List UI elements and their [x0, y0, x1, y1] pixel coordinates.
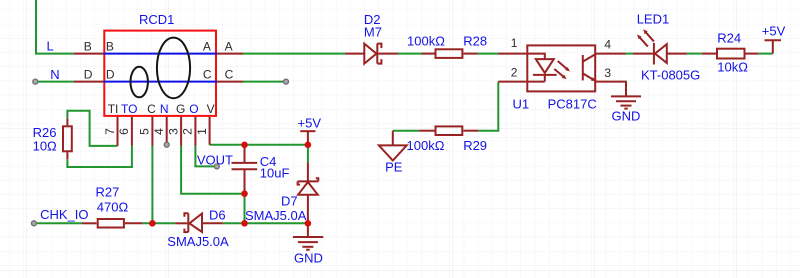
svg-text:L: L [47, 39, 54, 54]
svg-text:KT-0805G: KT-0805G [641, 67, 700, 82]
svg-text:7: 7 [103, 128, 117, 135]
svg-text:GND: GND [294, 251, 323, 266]
svg-text:2: 2 [511, 65, 518, 79]
svg-text:C: C [225, 68, 234, 82]
svg-text:SMAJ5.0A: SMAJ5.0A [245, 208, 307, 223]
svg-text:10kΩ: 10kΩ [717, 59, 748, 74]
svg-text:PE: PE [385, 159, 403, 174]
svg-text:D: D [84, 68, 93, 82]
svg-text:6: 6 [117, 128, 131, 135]
svg-text:4: 4 [604, 38, 611, 52]
svg-text:B: B [106, 40, 114, 54]
svg-text:U1: U1 [513, 96, 530, 111]
svg-text:R28: R28 [463, 34, 487, 49]
svg-text:C: C [203, 68, 212, 82]
svg-text:D7: D7 [281, 194, 298, 209]
svg-text:GND: GND [612, 108, 641, 123]
svg-text:VOUT: VOUT [197, 152, 233, 167]
svg-text:5: 5 [138, 128, 152, 135]
svg-text:LED1: LED1 [637, 11, 670, 26]
svg-text:PC817C: PC817C [548, 96, 597, 111]
svg-text:A: A [203, 40, 211, 54]
svg-text:2: 2 [181, 128, 195, 135]
svg-text:+5V: +5V [762, 24, 786, 39]
svg-text:3: 3 [166, 128, 180, 135]
svg-text:B: B [84, 40, 92, 54]
svg-text:D: D [106, 68, 115, 82]
svg-text:N: N [50, 67, 59, 82]
svg-text:R24: R24 [717, 31, 741, 46]
svg-text:10uF: 10uF [260, 166, 290, 181]
svg-text:TO: TO [121, 102, 137, 116]
svg-text:G: G [176, 102, 185, 116]
svg-text:C: C [147, 102, 156, 116]
svg-text:M7: M7 [364, 25, 382, 40]
svg-text:RCD1: RCD1 [139, 12, 174, 27]
svg-text:4: 4 [152, 128, 166, 135]
svg-text:100kΩ: 100kΩ [407, 34, 445, 49]
svg-text:R27: R27 [96, 185, 120, 200]
svg-text:D6: D6 [209, 207, 226, 222]
svg-text:TI: TI [108, 102, 119, 116]
svg-text:V: V [207, 102, 215, 116]
svg-text:10Ω: 10Ω [33, 138, 57, 153]
svg-text:SMAJ5.0A: SMAJ5.0A [167, 234, 229, 249]
svg-text:3: 3 [604, 66, 611, 80]
svg-text:R29: R29 [463, 138, 487, 153]
svg-text:N: N [160, 102, 169, 116]
svg-text:A: A [225, 40, 233, 54]
svg-text:O: O [189, 102, 198, 116]
svg-text:100kΩ: 100kΩ [407, 138, 445, 153]
svg-text:470Ω: 470Ω [97, 199, 129, 214]
svg-text:CHK_IO: CHK_IO [40, 207, 88, 222]
svg-text:1: 1 [195, 128, 209, 135]
svg-text:+5V: +5V [298, 115, 322, 130]
svg-text:1: 1 [511, 36, 518, 50]
